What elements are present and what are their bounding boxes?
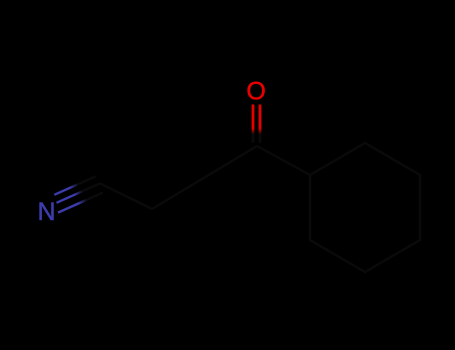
C=O left line [252, 105, 255, 144]
triple bond middle line [57, 183, 101, 202]
C=O right line [259, 105, 262, 144]
wire: bond C2-C3-C4 (chain up to carbonyl carbon, colinear) [152, 146, 257, 209]
wire: bond C1-C2 (nitrile carbon to CH2) [100, 183, 152, 209]
svg-text:O: O [246, 77, 265, 105]
benzene ring outline [310, 143, 420, 272]
svg-text:N: N [37, 198, 55, 226]
triple bond upper line [54, 176, 95, 194]
double bond C=O (two vertical lines, red to dark) [253, 105, 260, 144]
triple bond N#C (three parallel lines, blue to dark) [54, 176, 103, 212]
wire: bond C4-C5 (carbonyl carbon to ring ipso) [257, 146, 310, 175]
triple bond lower line [58, 193, 103, 213]
